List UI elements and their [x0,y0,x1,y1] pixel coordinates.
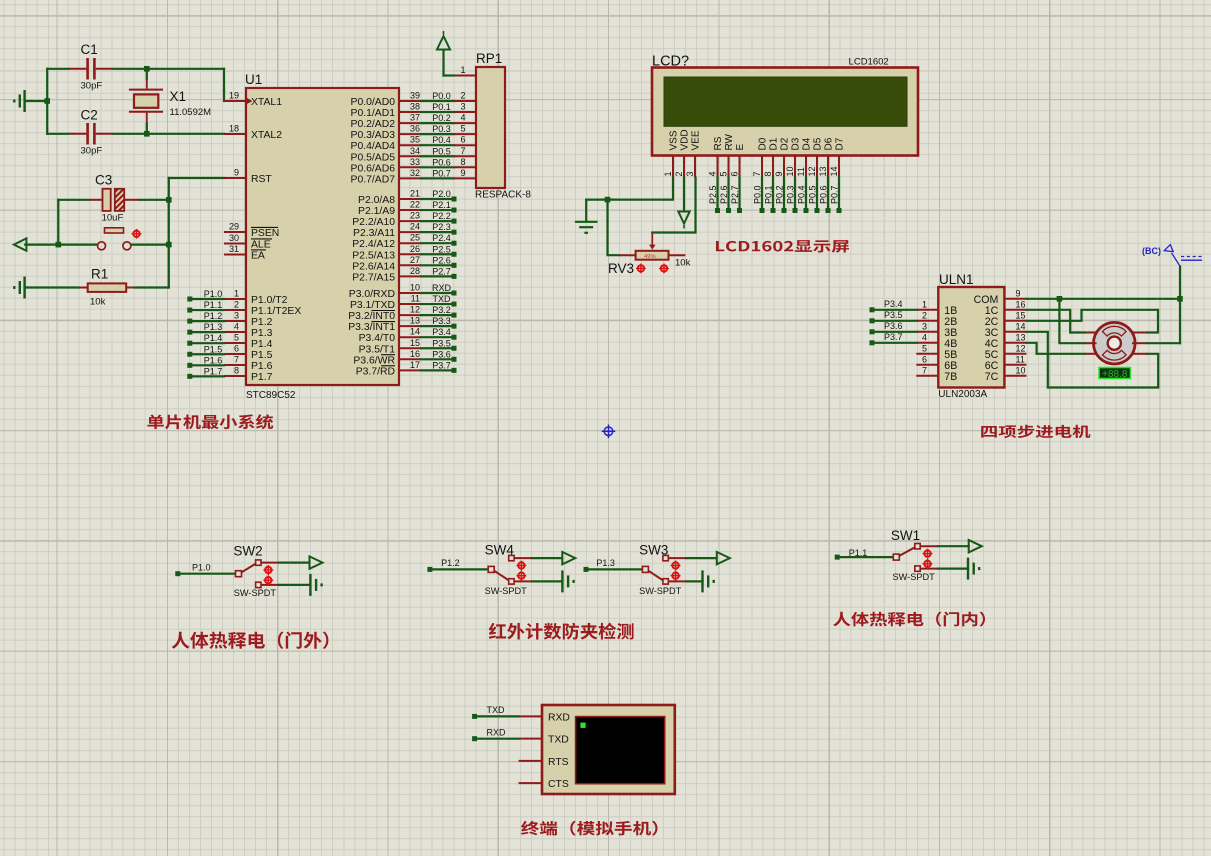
svg-text:10k: 10k [675,258,691,269]
terminal square P3.7 [452,368,457,373]
pin 10 7C (ULN1 right) [1004,375,1026,377]
svg-text:P1.6: P1.6 [251,361,273,372]
svg-text:P0.2: P0.2 [775,185,785,204]
svg-text:6: 6 [234,344,239,354]
pin 13 4C (ULN1 right) [1004,342,1026,344]
pin 7 (RP1) [454,155,476,157]
terminal square P1.7 [187,374,192,379]
svg-text:P1.3: P1.3 [596,558,615,568]
svg-text:D7: D7 [835,137,846,150]
pin 2 P1.1/T2EX (U1 left) [224,309,246,311]
svg-text:RST: RST [251,174,272,185]
svg-text:D3: D3 [791,137,802,150]
pin 13 D6 (LCD) [827,156,829,178]
power terminal arrow SW3 [717,552,730,564]
pin 4 RS (LCD) [717,156,719,178]
capacitor C3 [88,199,102,201]
svg-text:34: 34 [410,146,420,156]
power terminal (VDD) [678,212,689,224]
pin 34 P0.5 (U1 right) [399,155,421,157]
wire P0.5 to RP1 [421,155,454,157]
svg-text:9: 9 [1016,288,1021,298]
caption 单片机最小系统 [147,414,273,429]
svg-text:P3.5: P3.5 [432,338,451,348]
wire RST to chip [169,177,224,179]
pin 9 D2 (LCD) [783,156,785,178]
wire motor right center to rail [1148,342,1181,344]
toggle marker (RV3 right) [659,264,669,274]
svg-text:P1.2: P1.2 [204,311,223,321]
pin 12 D5 (LCD) [816,156,818,178]
svg-text:P2.6: P2.6 [432,255,451,265]
wire net P3.7 [421,369,452,371]
potentiometer RV3 wiper [651,233,653,246]
wire BC vertical [1179,267,1181,344]
svg-text:15: 15 [410,338,420,348]
pin 6 6B (ULN1 left) [916,364,938,366]
svg-text:8: 8 [763,171,773,176]
svg-text:SW3: SW3 [639,543,668,558]
svg-text:2: 2 [674,171,684,176]
terminal square P3.4 (ULN) [870,307,875,312]
svg-text:TXD: TXD [548,735,569,746]
wire net P1.1 (switch) [839,556,893,558]
svg-text:6: 6 [730,171,740,176]
svg-text:3: 3 [234,311,239,321]
svg-text:31: 31 [229,244,239,254]
wire net P2.5 [421,253,452,255]
svg-text:36: 36 [410,124,420,134]
svg-text:D2: D2 [780,137,791,150]
wire net P1.0 [192,298,224,300]
svg-text:P3.4: P3.4 [432,327,451,337]
svg-text:ALE: ALE [251,240,271,251]
junction COM/motor [1057,296,1063,302]
wire net P0.6 (LCD) [827,178,829,210]
toggle marker SW2 up [263,565,273,575]
svg-text:7C: 7C [985,371,999,383]
terminal square P1.3 [584,567,589,572]
wire net P0.1 (LCD) [772,178,774,210]
terminal square P2.0 [452,197,457,202]
svg-text:RP1: RP1 [476,51,502,66]
svg-text:P0.0/AD0: P0.0/AD0 [351,97,396,108]
switch SW2 body [236,571,242,577]
junction C3-RST [166,197,172,203]
svg-text:27: 27 [410,255,420,265]
svg-text:9: 9 [234,168,239,178]
svg-text:2: 2 [460,91,465,101]
svg-text:P1.7: P1.7 [204,366,223,376]
svg-text:P0.5: P0.5 [808,185,818,204]
pin 7 P1.6 (U1 left) [224,364,246,366]
svg-text:P1.7: P1.7 [251,372,273,383]
svg-text:11: 11 [796,167,806,176]
pin 3 3B (ULN1 left) [916,331,938,333]
wire C1 right along top [114,68,225,70]
wire RP1 pin1 [444,74,455,76]
wire net P2.2 [421,220,452,222]
svg-text:12: 12 [410,305,420,315]
pin 1 1B (ULN1 left) [916,309,938,311]
wire R1 right [135,286,169,288]
wire 3C to motor [1026,332,1158,388]
pin 36 P0.3 (U1 right) [399,133,421,135]
wire net P1.1 [192,309,224,311]
svg-text:E: E [735,144,746,151]
svg-text:14: 14 [1016,321,1026,331]
motor stub left y=353.8 [1085,353,1097,355]
ground (SW4) [562,570,573,592]
svg-text:7: 7 [234,355,239,365]
pin 10 D3 (LCD) [794,156,796,178]
svg-text:P1.3: P1.3 [251,328,273,339]
pin 5 (RP1) [454,133,476,135]
wire C2 left to node [47,133,68,135]
pin 16 P3.6/WR (U1 right) [399,358,421,360]
svg-text:P0.1/AD1: P0.1/AD1 [351,108,396,119]
wire upper throw SW2 [279,561,310,563]
svg-text:P2.7: P2.7 [432,266,451,276]
svg-text:18: 18 [229,124,239,134]
junction X1 top [144,66,150,72]
svg-text:U1: U1 [245,72,262,87]
terminal square P3.5 (ULN) [870,318,875,323]
svg-text:XTAL1: XTAL1 [251,97,282,108]
junction COM/BC [1177,296,1183,302]
pin 28 P2.7 (U1 right) [399,275,421,277]
capacitor C2 [69,133,87,135]
svg-text:P3.5/T1: P3.5/T1 [359,344,396,355]
resistor R1 [88,283,127,292]
wire VEE to RV3 wiper [652,178,695,233]
svg-text:P0.4/AD4: P0.4/AD4 [351,141,396,152]
svg-text:33: 33 [410,157,420,167]
pin 6 (RP1) [454,144,476,146]
pin 29 PSEN (U1 left) [224,231,246,233]
pin 4 (RP1) [454,122,476,124]
svg-text:8: 8 [234,366,239,376]
pin 15 P3.5/T1 (U1 right) [399,347,421,349]
wire net P0.5 (LCD) [816,178,818,210]
pin 10 P3.0/RXD (U1 right) [399,292,421,294]
terminal square RXD [472,736,477,741]
pin 14 3C (ULN1 right) [1004,331,1026,333]
svg-text:13: 13 [818,166,828,176]
svg-text:P2.0/A8: P2.0/A8 [358,195,395,206]
wire net P3.7 (ULN) [874,342,916,344]
svg-text:SW-SPDT: SW-SPDT [639,586,682,596]
toggle marker SW2 down [263,575,273,585]
wire C1 left to node [47,68,68,70]
terminal square P2.5 (LCD) [715,208,720,213]
svg-text:30: 30 [229,233,239,243]
toggle marker SW3 up [671,561,681,571]
svg-text:5: 5 [234,333,239,343]
svg-text:RXD: RXD [548,712,570,723]
chip ULN1 ULN2003A [938,287,1004,388]
pin lower throw SW1 [921,568,939,570]
svg-text:11: 11 [411,294,420,304]
wire lower throw SW2 [279,584,311,586]
svg-text:D6: D6 [824,137,835,150]
pin 6 E (LCD) [739,156,741,178]
power terminal arrow SW2 [310,556,323,568]
pin 35 P0.4 (U1 right) [399,144,421,146]
svg-text:P2.0: P2.0 [432,189,451,199]
svg-text:XTAL2: XTAL2 [251,130,282,141]
wire button left [25,244,97,246]
junction VSS/RV3 [605,197,611,203]
svg-text:P2.1/A9: P2.1/A9 [358,206,395,217]
svg-text:14: 14 [829,166,839,176]
pin 7 D0 (LCD) [761,156,763,178]
wire COM rail [1026,298,1180,300]
svg-text:P3.0/RXD: P3.0/RXD [349,289,395,300]
wire to motor left center [1059,299,1084,343]
svg-text:P2.4/A12: P2.4/A12 [352,239,395,250]
pin 5 P1.4 (U1 left) [224,342,246,344]
terminal square P1.1 [835,555,840,560]
wire net P1.3 [192,331,224,333]
svg-text:P3.7: P3.7 [884,332,903,342]
ground (SW2) [310,574,321,596]
svg-text:32: 32 [410,168,420,178]
wire net P2.5 (LCD) [716,178,718,210]
pin 2 VDD (LCD) [683,156,685,178]
svg-text:P3.4/T0: P3.4/T0 [359,333,396,344]
svg-text:P3.6: P3.6 [884,321,903,331]
wire bottom plate X1 [146,124,148,134]
terminal square P3.7 (ULN) [870,340,875,345]
pin 4 P1.3 (U1 left) [224,331,246,333]
motor stub right y=343.2 [1132,342,1148,344]
terminal square P2.6 [452,263,457,268]
svg-text:C3: C3 [95,173,112,188]
wire ground stem [585,200,587,220]
svg-text:2: 2 [922,310,927,320]
svg-text:1: 1 [234,289,239,299]
pin upper throw SW4 [514,557,532,559]
svg-text:D4: D4 [802,137,813,150]
junction X1 bottom [144,131,150,137]
wire 2C to motor [1026,310,1158,333]
svg-text:10: 10 [410,283,420,293]
wire net P0.0 (LCD) [761,178,763,210]
pin 21 P2.0 (U1 right) [399,198,421,200]
pin 32 P0.7 (U1 right) [399,177,421,179]
terminal square P3.2 [452,313,457,318]
svg-text:EA: EA [251,251,265,262]
svg-text:D5: D5 [813,137,824,150]
pin 9 RST (U1 left) [224,177,246,179]
toggle marker SW4 down [517,571,527,581]
ground (R1) [14,277,24,299]
terminal square P3.6 [452,357,457,362]
svg-text:P0.1: P0.1 [432,102,451,112]
pin 11 6C (ULN1 right) [1004,364,1026,366]
svg-text:5: 5 [460,124,465,134]
pin 37 P0.2 (U1 right) [399,122,421,124]
svg-text:C2: C2 [81,108,98,123]
terminal square P0.5 (LCD) [815,208,820,213]
svg-text:P0.6/AD6: P0.6/AD6 [351,163,396,174]
svg-text:29: 29 [229,222,239,232]
wire net P1.7 [192,375,224,377]
switch SW4 body [488,566,494,572]
svg-text:3: 3 [685,171,695,176]
svg-text:P0.7: P0.7 [432,168,451,178]
wire P0.0 to RP1 [421,100,454,102]
svg-text:CTS: CTS [548,779,569,790]
wire VSS to ground [586,178,673,200]
wire P0.2 to RP1 [421,122,454,124]
pin 5 5B (ULN1 left) [916,353,938,355]
terminal square P2.6 (LCD) [726,208,731,213]
svg-text:P0.7: P0.7 [830,185,840,204]
pin 39 P0.0 (U1 right) [399,100,421,102]
wire P0.7 to RP1 [421,177,454,179]
resistor pack RP1 RESPACK-8 [476,67,505,188]
switch SW1 body [893,554,899,560]
terminal square P2.3 [452,230,457,235]
svg-text:SW-SPDT: SW-SPDT [234,588,277,598]
wire RST net vertical [168,178,170,288]
svg-text:STC89C52: STC89C52 [246,390,296,401]
wire 1C to motor [1026,310,1084,333]
svg-text:PSEN: PSEN [251,228,279,239]
wire net P0.4 (LCD) [805,178,807,210]
svg-text:C1: C1 [81,42,98,57]
svg-text:25: 25 [410,233,420,243]
svg-text:P0.3: P0.3 [786,185,796,204]
wire to power arrow [442,50,444,76]
svg-text:P2.4: P2.4 [432,233,451,243]
svg-text:10: 10 [1016,365,1026,375]
wire net P3.3 [421,325,452,327]
svg-text:D0: D0 [758,137,769,150]
svg-text:6: 6 [460,135,465,145]
pin 8 (RP1) [454,166,476,168]
svg-text:49%: 49% [644,254,656,260]
svg-text:35: 35 [410,135,420,145]
svg-text:4: 4 [922,332,927,342]
junction button-C3 [56,242,62,248]
svg-text:7: 7 [922,365,927,375]
toggle marker (button) [132,229,142,239]
wire P0.4 to RP1 [421,144,454,146]
caption 终端(模拟手机) [521,821,657,836]
pin 18 XTAL2 (U1 left) [224,133,246,135]
wire net P3.5 [421,347,452,349]
pin 8 P1.7 (U1 left) [224,375,246,377]
svg-text:P3.2/INT0: P3.2/INT0 [348,311,395,322]
wire to RV3 left [608,200,619,256]
pin 22 P2.1 (U1 right) [399,209,421,211]
svg-text:P2.7: P2.7 [730,185,740,204]
caption 四项步进电机 [981,425,1090,438]
motor stub right y=332.5 [1132,332,1148,334]
wire net P0.7 (LCD) [838,178,840,210]
wire net P2.3 [421,231,452,233]
svg-text:39: 39 [410,91,420,101]
pin 1 (RP1) [454,75,476,77]
terminal square P2.7 [452,274,457,279]
wire lower throw SW4 [532,580,563,582]
svg-text:P0.4: P0.4 [432,135,451,145]
wire net P3.5 (ULN) [874,320,916,322]
pin 23 P2.2 (U1 right) [399,220,421,222]
svg-text:4: 4 [234,322,239,332]
svg-text:17: 17 [410,360,420,370]
svg-text:7: 7 [752,171,762,176]
wire net P3.4 (ULN) [874,309,916,311]
wire to ground [25,100,47,102]
svg-text:15: 15 [1016,310,1026,320]
wire R1 left [25,286,79,288]
chip U1 STC89C52 [246,88,399,385]
svg-text:P1.6: P1.6 [204,355,223,365]
capacitor C1 [69,68,87,70]
push button (reset) [105,228,124,233]
wire C2 right to XTAL2 [114,133,225,135]
wire into XTAL1 row [223,90,225,101]
wire net P2.7 (LCD) [738,178,740,210]
terminal square P2.4 [452,241,457,246]
terminal square P0.3 (LCD) [793,208,798,213]
svg-text:P1.2: P1.2 [441,558,460,568]
terminal square P3.4 [452,335,457,340]
svg-text:10: 10 [785,166,795,176]
power terminal arrow SW1 [969,540,982,552]
caption 人体热释电(门内) [833,612,985,627]
origin marker [602,425,616,439]
svg-text:4: 4 [460,113,465,123]
terminal square P1.0 [187,297,192,302]
terminal square P3.6 (ULN) [870,329,875,334]
terminal square P0.2 (LCD) [782,208,787,213]
svg-text:P3.2: P3.2 [432,305,451,315]
ground (crystal) [14,90,24,112]
svg-text:28: 28 [410,266,420,276]
pin 9 COM (ULN1 right) [1004,298,1026,300]
crystal X1 [146,79,148,89]
wire upper throw SW3 [686,557,716,559]
svg-text:P1.0: P1.0 [192,563,211,573]
svg-text:TXD: TXD [433,294,452,304]
wire P0.3 to RP1 [421,133,454,135]
terminal square P2.1 [452,208,457,213]
wire 4C to motor [1026,343,1084,354]
svg-text:P2.5: P2.5 [432,244,451,254]
svg-text:RS: RS [713,136,724,150]
svg-text:P3.7/RD: P3.7/RD [356,366,395,377]
svg-text:P0.6: P0.6 [432,157,451,167]
svg-text:2: 2 [234,300,239,310]
ground (LCD VSS) [575,222,598,233]
svg-text:P1.4: P1.4 [204,333,223,343]
svg-text:13: 13 [1016,332,1026,342]
pin 1 VSS (LCD) [672,156,674,178]
pin 30 ALE (U1 left) [224,243,246,245]
svg-text:P3.5: P3.5 [884,310,903,320]
wire net P1.2 (switch) [432,568,488,570]
caption 红外计数防夹检测 [489,623,634,640]
svg-text:P2.3: P2.3 [432,222,451,232]
svg-text:(BC): (BC) [1142,246,1161,256]
terminal square P2.7 (LCD) [737,208,742,213]
pin 26 P2.5 (U1 right) [399,253,421,255]
